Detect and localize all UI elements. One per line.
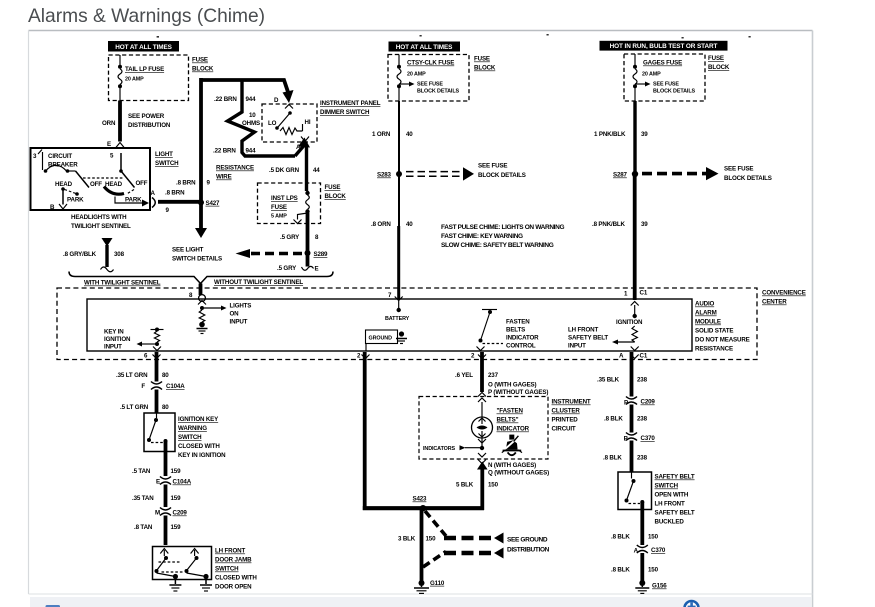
dashed arrow see fuse block details (S287) bbox=[642, 166, 772, 183]
svg-text:FUSE: FUSE bbox=[192, 57, 208, 64]
svg-text:DIMMER SWITCH: DIMMER SWITCH bbox=[320, 109, 370, 116]
svg-text:DOOR JAMB: DOOR JAMB bbox=[215, 557, 252, 564]
splice S289 bbox=[305, 250, 329, 258]
svg-text:E: E bbox=[107, 141, 111, 148]
svg-text:238: 238 bbox=[637, 377, 648, 384]
connector P C209 bbox=[624, 397, 655, 407]
svg-text:.8 BRN: .8 BRN bbox=[165, 190, 185, 197]
fuse block label (middle) bbox=[474, 56, 496, 72]
header HOT AT ALL TIMES (middle) bbox=[389, 42, 461, 52]
svg-text:S423: S423 bbox=[413, 496, 428, 503]
wire .35 LT GRN 80 bbox=[116, 352, 169, 382]
svg-text:C209: C209 bbox=[173, 510, 188, 517]
terminal A hook bbox=[151, 190, 156, 208]
svg-text:OFF: OFF bbox=[90, 181, 102, 188]
wire ground from module terminal 2 bbox=[363, 352, 367, 510]
svg-text:80: 80 bbox=[162, 372, 169, 379]
svg-text:BLOCK DETAILS: BLOCK DETAILS bbox=[417, 89, 460, 95]
svg-text:20 AMP: 20 AMP bbox=[642, 72, 661, 78]
svg-text:IGNITION KEY: IGNITION KEY bbox=[178, 416, 219, 423]
fuse GAGES FUSE 20 AMP bbox=[633, 54, 682, 101]
dashed arrow see ground distribution (lower) bbox=[423, 548, 504, 568]
instrument panel dimmer switch box bbox=[262, 97, 381, 142]
svg-text:.5 TAN: .5 TAN bbox=[132, 468, 151, 475]
wire .8 ORN 40 bbox=[371, 174, 413, 299]
svg-text:HOT AT ALL TIMES: HOT AT ALL TIMES bbox=[396, 44, 453, 51]
terminal N/Q out of cluster bbox=[478, 453, 549, 477]
svg-text:.22 BRN: .22 BRN bbox=[213, 148, 236, 155]
wire S427 down arrow bbox=[195, 203, 207, 239]
terminal 6 bbox=[144, 352, 161, 359]
inst lps fuse internals bbox=[294, 183, 310, 224]
switch blade left (twilight) bbox=[50, 171, 102, 211]
svg-text:M: M bbox=[155, 510, 160, 517]
svg-text:HOT IN RUN, BULB TEST OR START: HOT IN RUN, BULB TEST OR START bbox=[610, 43, 718, 50]
svg-text:IGNITION: IGNITION bbox=[616, 319, 643, 326]
svg-text:CLUSTER: CLUSTER bbox=[552, 408, 581, 415]
brace with/without twilight sentinel bbox=[69, 272, 333, 287]
ground (door jamb right) bbox=[200, 580, 212, 592]
terminal 1 C1 bbox=[624, 290, 648, 298]
svg-text:LO: LO bbox=[268, 120, 277, 127]
svg-text:LIGHT: LIGHT bbox=[155, 151, 173, 158]
svg-text:BLOCK DETAILS: BLOCK DETAILS bbox=[478, 172, 526, 179]
dimmer switch internals bbox=[268, 105, 311, 152]
battery input bbox=[385, 292, 410, 322]
indicators feed bbox=[423, 445, 480, 452]
see fuse block details (inside gages box) bbox=[635, 82, 696, 95]
svg-text:E: E bbox=[315, 266, 319, 273]
svg-text:BLOCK: BLOCK bbox=[325, 193, 347, 200]
svg-text:HEAD: HEAD bbox=[55, 181, 73, 188]
svg-text:.8 ORN: .8 ORN bbox=[371, 221, 391, 228]
svg-text:GAGES FUSE: GAGES FUSE bbox=[643, 60, 682, 67]
lh front safety belt input bbox=[568, 327, 635, 350]
svg-text:D: D bbox=[274, 97, 279, 104]
connector M C209 bbox=[155, 508, 187, 517]
svg-text:944: 944 bbox=[246, 148, 257, 155]
svg-text:N (WITH GAGES): N (WITH GAGES) bbox=[488, 462, 536, 469]
svg-text:.8 BRN: .8 BRN bbox=[176, 180, 196, 187]
svg-text:.8 BLK: .8 BLK bbox=[611, 567, 630, 574]
wire ORN see power distribution bbox=[102, 101, 171, 142]
svg-text:G110: G110 bbox=[430, 580, 445, 587]
footer zoom icon bbox=[685, 601, 699, 607]
svg-text:OPEN WITH: OPEN WITH bbox=[655, 492, 689, 499]
svg-text:SEE FUSE: SEE FUSE bbox=[417, 82, 443, 88]
svg-text:.5 DK GRN: .5 DK GRN bbox=[269, 167, 300, 174]
wire .5 GRY 8 to S289 bbox=[280, 213, 319, 253]
svg-text:BELTS: BELTS bbox=[506, 327, 525, 334]
svg-text:.8 BLK: .8 BLK bbox=[603, 455, 622, 462]
svg-text:39: 39 bbox=[641, 221, 648, 228]
svg-text:TWILIGHT SENTINEL: TWILIGHT SENTINEL bbox=[71, 223, 131, 230]
svg-text:INDICATOR: INDICATOR bbox=[497, 426, 530, 433]
wire .8 PNK/BLK 39 bbox=[592, 174, 648, 300]
svg-text:150: 150 bbox=[648, 567, 659, 574]
wire .35 BLK 238 bbox=[597, 352, 648, 397]
connector A C370 bbox=[634, 545, 666, 555]
svg-text:ALARM: ALARM bbox=[695, 310, 717, 317]
terminal 2 (ground) bbox=[357, 352, 370, 359]
svg-text:C104A: C104A bbox=[173, 479, 192, 486]
svg-text:SEE LIGHT: SEE LIGHT bbox=[172, 247, 204, 254]
svg-text:.5 GRY: .5 GRY bbox=[277, 265, 297, 272]
headlights caption bbox=[71, 214, 131, 230]
chime legend bbox=[441, 224, 564, 249]
ignition key warning switch internals bbox=[147, 413, 168, 443]
fuse CTSY-CLK FUSE 20 AMP bbox=[397, 55, 454, 102]
svg-text:CIRCUIT: CIRCUIT bbox=[552, 426, 576, 433]
svg-text:44: 44 bbox=[313, 167, 320, 174]
wire S423 to G110 bbox=[398, 508, 436, 582]
door jamb switch label bbox=[215, 548, 257, 591]
svg-text:238: 238 bbox=[637, 416, 648, 423]
svg-text:CTSY-CLK FUSE: CTSY-CLK FUSE bbox=[407, 60, 454, 67]
svg-text:BLOCK DETAILS: BLOCK DETAILS bbox=[653, 89, 696, 95]
svg-text:KEY IN IGNITION: KEY IN IGNITION bbox=[178, 452, 226, 459]
svg-text:DO NOT MEASURE: DO NOT MEASURE bbox=[695, 337, 750, 344]
svg-text:C104A: C104A bbox=[166, 383, 185, 390]
see ground distribution label bbox=[507, 537, 550, 554]
svg-text:AUDIO: AUDIO bbox=[695, 301, 715, 308]
svg-text:SLOW CHIME: SAFETY BELT WARNIN: SLOW CHIME: SAFETY BELT WARNING bbox=[441, 242, 554, 249]
svg-text:F: F bbox=[141, 383, 145, 390]
header HOT IN RUN, BULB TEST OR START bbox=[600, 41, 728, 51]
fuse block box (tail lp fuse) bbox=[109, 55, 189, 101]
svg-text:159: 159 bbox=[171, 468, 182, 475]
svg-text:FUSE: FUSE bbox=[474, 56, 490, 63]
svg-text:PARK: PARK bbox=[67, 197, 84, 204]
svg-text:CONTROL: CONTROL bbox=[506, 343, 536, 350]
svg-text:.8 TAN: .8 TAN bbox=[134, 524, 153, 531]
svg-text:944: 944 bbox=[246, 96, 257, 103]
svg-text:B: B bbox=[50, 204, 55, 211]
svg-text:E: E bbox=[156, 479, 160, 486]
see fuse block details (inside ctsy box) bbox=[399, 82, 460, 95]
svg-text:150: 150 bbox=[488, 482, 499, 489]
scan specks bbox=[157, 36, 159, 38]
svg-text:.8 GRY/BLK: .8 GRY/BLK bbox=[63, 251, 97, 258]
svg-text:WITHOUT TWILIGHT SENTINEL: WITHOUT TWILIGHT SENTINEL bbox=[214, 279, 303, 286]
svg-text:"FASTEN: "FASTEN bbox=[497, 408, 524, 415]
panel border bbox=[29, 30, 813, 32]
ground (door jamb left) bbox=[169, 580, 181, 592]
light switch label bbox=[155, 151, 179, 167]
splice S283 bbox=[377, 171, 402, 179]
svg-text:FAST PULSE CHIME: LIGHTS ON W: FAST PULSE CHIME: LIGHTS ON WARNING bbox=[441, 224, 564, 231]
lh front door jamb switch box bbox=[153, 547, 212, 580]
svg-text:BLOCK: BLOCK bbox=[474, 65, 496, 72]
wire .8 BLK 150 (lower) bbox=[611, 553, 659, 581]
svg-text:.35 TAN: .35 TAN bbox=[132, 495, 154, 502]
svg-text:INDICATOR: INDICATOR bbox=[506, 335, 539, 342]
wire A to S427 bbox=[158, 190, 201, 215]
svg-text:SAFETY BELT: SAFETY BELT bbox=[655, 474, 695, 481]
svg-text:FUSE: FUSE bbox=[708, 55, 724, 62]
svg-text:INPUT: INPUT bbox=[230, 319, 248, 326]
svg-text:ORN: ORN bbox=[102, 120, 116, 127]
wire into convenience center terminal 8 bbox=[189, 284, 206, 305]
door jamb switch internals bbox=[155, 549, 209, 580]
svg-text:KEY IN: KEY IN bbox=[104, 329, 124, 336]
svg-text:INSTRUMENT PANEL: INSTRUMENT PANEL bbox=[320, 100, 381, 107]
header HOT AT ALL TIMES (left) bbox=[108, 41, 179, 52]
wire .5 TAN 159 bbox=[132, 441, 181, 476]
svg-text:TAIL LP FUSE: TAIL LP FUSE bbox=[125, 66, 164, 73]
svg-text:150: 150 bbox=[426, 536, 437, 543]
svg-text:FAST CHIME: KEY WARNING: FAST CHIME: KEY WARNING bbox=[441, 233, 523, 240]
svg-text:SAFETY BELT: SAFETY BELT bbox=[568, 335, 608, 342]
ground label box bbox=[366, 330, 408, 351]
svg-text:C209: C209 bbox=[641, 399, 656, 406]
circuit breaker bbox=[33, 150, 78, 173]
svg-text:GROUND: GROUND bbox=[369, 336, 393, 342]
svg-text:5 AMP: 5 AMP bbox=[271, 214, 287, 220]
svg-text:S427: S427 bbox=[206, 200, 221, 207]
svg-text:SWITCH: SWITCH bbox=[655, 483, 679, 490]
fuse block box (ctsy-clk fuse) bbox=[388, 55, 469, 102]
mechanical link dashed bbox=[83, 177, 124, 179]
svg-text:INST LPS: INST LPS bbox=[271, 195, 298, 202]
svg-text:A: A bbox=[296, 144, 301, 151]
safety belt switch box bbox=[618, 472, 652, 510]
terminal E light switch bbox=[107, 141, 125, 160]
svg-text:SEE FUSE: SEE FUSE bbox=[478, 163, 507, 170]
svg-text:BUCKLED: BUCKLED bbox=[655, 519, 685, 526]
resistance wire .22 BRN 944 bbox=[213, 80, 310, 181]
svg-text:LH FRONT: LH FRONT bbox=[655, 501, 685, 508]
footer blue button bbox=[46, 605, 61, 607]
svg-text:.5 GRY: .5 GRY bbox=[280, 234, 300, 241]
audio alarm module inner box bbox=[87, 299, 692, 351]
svg-text:5 BLK: 5 BLK bbox=[456, 482, 474, 489]
svg-text:HEAD: HEAD bbox=[105, 181, 123, 188]
fasten belts indicator control switch bbox=[477, 310, 540, 351]
wire S427 up to dimmer feed bbox=[176, 78, 211, 203]
svg-text:A: A bbox=[151, 190, 156, 197]
svg-text:PRINTED: PRINTED bbox=[552, 417, 579, 424]
svg-text:S283: S283 bbox=[377, 172, 392, 179]
audio alarm module label bbox=[695, 301, 750, 353]
wire 1 ORN 40 bbox=[372, 101, 413, 174]
svg-text:10: 10 bbox=[249, 112, 256, 119]
footer strip bbox=[30, 597, 811, 607]
ignition key warning switch box bbox=[144, 413, 175, 452]
svg-text:BREAKER: BREAKER bbox=[48, 162, 78, 169]
convenience center outer dashed box bbox=[57, 288, 806, 360]
svg-text:CLOSED WITH: CLOSED WITH bbox=[215, 575, 257, 582]
svg-text:SWITCH: SWITCH bbox=[215, 566, 239, 573]
svg-text:IGNITION: IGNITION bbox=[104, 336, 131, 343]
fuse block label (inst lps) bbox=[325, 184, 347, 200]
wire 1 PNK/BLK 39 bbox=[594, 101, 648, 174]
terminal A C1 bbox=[619, 352, 648, 359]
safety belt switch internals bbox=[625, 472, 645, 504]
svg-text:308: 308 bbox=[114, 251, 125, 258]
svg-text:A: A bbox=[619, 352, 624, 359]
svg-text:HOT AT ALL TIMES: HOT AT ALL TIMES bbox=[115, 44, 172, 51]
svg-text:WIRE: WIRE bbox=[216, 174, 232, 181]
svg-text:.8 BLK: .8 BLK bbox=[604, 416, 623, 423]
svg-text:3 BLK: 3 BLK bbox=[398, 536, 416, 543]
svg-text:CONVENIENCE: CONVENIENCE bbox=[762, 290, 806, 297]
svg-text:.22 BRN: .22 BRN bbox=[214, 96, 237, 103]
svg-text:SEE GROUND: SEE GROUND bbox=[507, 537, 548, 544]
svg-text:.6 YEL: .6 YEL bbox=[455, 372, 473, 379]
svg-text:.8 BLK: .8 BLK bbox=[611, 534, 630, 541]
ignition input bbox=[616, 302, 643, 351]
svg-text:SEE FUSE: SEE FUSE bbox=[724, 166, 753, 173]
svg-text:RESISTANCE: RESISTANCE bbox=[216, 165, 254, 172]
svg-text:SWITCH: SWITCH bbox=[178, 434, 202, 441]
ground G156 bbox=[635, 580, 667, 593]
wire dimmer A to inst lps fuse bbox=[269, 145, 320, 183]
connector B C370 bbox=[624, 433, 656, 443]
svg-text:80: 80 bbox=[162, 404, 169, 411]
svg-text:INPUT: INPUT bbox=[568, 343, 586, 350]
connector F C104A bbox=[141, 382, 185, 391]
svg-text:WARNING: WARNING bbox=[178, 425, 207, 432]
svg-text:DISTRIBUTION: DISTRIBUTION bbox=[507, 547, 550, 554]
svg-text:HEADLIGHTS WITH: HEADLIGHTS WITH bbox=[71, 214, 127, 221]
svg-text:Alarms & Warnings (Chime): Alarms & Warnings (Chime) bbox=[28, 6, 265, 27]
wire .8 GRY/BLK 308 stub bbox=[63, 238, 125, 272]
wire .8 BLK 238 (upper) bbox=[604, 405, 648, 433]
svg-text:.8 PNK/BLK: .8 PNK/BLK bbox=[592, 221, 626, 228]
key in ignition input bbox=[104, 328, 164, 351]
svg-text:159: 159 bbox=[171, 524, 182, 531]
fuse block box (gages fuse) bbox=[624, 54, 705, 101]
svg-text:P (WITHOUT GAGES): P (WITHOUT GAGES) bbox=[488, 389, 548, 396]
svg-text:G156: G156 bbox=[652, 583, 667, 590]
svg-text:150: 150 bbox=[648, 534, 659, 541]
double dashed arrow see fuse block details (S283) bbox=[406, 163, 526, 181]
svg-text:C370: C370 bbox=[641, 435, 656, 442]
svg-text:20 AMP: 20 AMP bbox=[407, 72, 426, 78]
svg-text:CIRCUIT: CIRCUIT bbox=[48, 153, 72, 160]
svg-text:C1: C1 bbox=[640, 353, 648, 360]
splice S423 bbox=[413, 496, 428, 512]
svg-text:C1: C1 bbox=[640, 290, 648, 297]
svg-text:39: 39 bbox=[641, 131, 648, 138]
light switch box (headlights with twilight sentinel) bbox=[31, 148, 151, 210]
connector E C104A bbox=[156, 477, 192, 486]
svg-text:OHMS: OHMS bbox=[242, 120, 260, 127]
svg-text:OFF: OFF bbox=[136, 180, 148, 187]
splice S427 bbox=[198, 200, 220, 207]
svg-text:BLOCK DETAILS: BLOCK DETAILS bbox=[724, 175, 772, 182]
svg-text:ON: ON bbox=[230, 311, 240, 318]
svg-text:SWITCH DETAILS: SWITCH DETAILS bbox=[172, 256, 222, 263]
wire .8 TAN 159 bbox=[134, 516, 181, 546]
svg-text:INPUT: INPUT bbox=[104, 344, 122, 351]
svg-text:1 ORN: 1 ORN bbox=[372, 131, 391, 138]
svg-text:1 PNK/BLK: 1 PNK/BLK bbox=[594, 131, 626, 138]
dashed arrow S289 to see light switch details bbox=[236, 249, 307, 258]
svg-text:SEE FUSE: SEE FUSE bbox=[653, 82, 679, 88]
svg-text:SOLID STATE: SOLID STATE bbox=[695, 328, 733, 335]
wire .5 LT GRN 80 bbox=[120, 390, 169, 414]
svg-text:.35 BLK: .35 BLK bbox=[597, 377, 620, 384]
lights on input sensor bbox=[197, 303, 252, 334]
seat belt icon bbox=[502, 435, 522, 456]
svg-text:BLOCK: BLOCK bbox=[192, 66, 214, 73]
svg-text:20 AMP: 20 AMP bbox=[125, 77, 144, 83]
wire .35 TAN 159 bbox=[132, 485, 181, 508]
dashed arrow see ground distribution (upper) bbox=[425, 511, 504, 544]
wire .5 GRY E below S289 bbox=[277, 253, 319, 273]
svg-text:CLOSED WITH: CLOSED WITH bbox=[178, 443, 220, 450]
ground G110 bbox=[414, 580, 445, 594]
svg-text:INSTRUMENT: INSTRUMENT bbox=[552, 399, 591, 406]
svg-text:FASTEN: FASTEN bbox=[506, 319, 530, 326]
svg-text:FUSE: FUSE bbox=[271, 204, 287, 211]
svg-text:.5 LT GRN: .5 LT GRN bbox=[120, 404, 149, 411]
wire .6 YEL 237 bbox=[455, 352, 548, 396]
svg-text:BELTS": BELTS" bbox=[497, 417, 519, 424]
svg-text:BLOCK: BLOCK bbox=[708, 64, 730, 71]
svg-text:O (WITH GAGES): O (WITH GAGES) bbox=[488, 382, 537, 389]
svg-text:S287: S287 bbox=[613, 172, 628, 179]
svg-text:40: 40 bbox=[406, 221, 413, 228]
terminal into instrument cluster bbox=[478, 393, 486, 403]
wire 5 BLK 150 bbox=[456, 462, 499, 511]
ground bus horizontal bbox=[363, 506, 484, 510]
wire .8 BLK 238 (lower) bbox=[603, 441, 648, 473]
svg-text:RESISTANCE: RESISTANCE bbox=[695, 346, 733, 353]
terminal 2 (indicator control) bbox=[471, 352, 486, 359]
svg-text:159: 159 bbox=[171, 495, 182, 502]
svg-text:LH FRONT: LH FRONT bbox=[568, 327, 598, 334]
svg-text:LIGHTS: LIGHTS bbox=[230, 303, 252, 310]
fuse block label (left) bbox=[192, 57, 214, 73]
wire feed to dimmer D bbox=[201, 80, 294, 103]
svg-text:S289: S289 bbox=[314, 251, 329, 258]
svg-text:CENTER: CENTER bbox=[762, 299, 787, 306]
svg-text:HI: HI bbox=[305, 119, 311, 126]
svg-text:DOOR OPEN: DOOR OPEN bbox=[215, 584, 252, 591]
svg-text:SEE POWER: SEE POWER bbox=[128, 113, 165, 120]
switch blade right (without twilight) bbox=[104, 153, 149, 207]
svg-text:BATTERY: BATTERY bbox=[385, 316, 410, 322]
fuse block label (right) bbox=[708, 55, 730, 71]
svg-text:DISTRIBUTION: DISTRIBUTION bbox=[128, 122, 171, 129]
inst lps fuse box bbox=[258, 183, 321, 224]
svg-text:40: 40 bbox=[406, 131, 413, 138]
svg-text:238: 238 bbox=[637, 455, 648, 462]
wire .8 BLK 150 (upper) bbox=[611, 502, 659, 545]
svg-text:SWITCH: SWITCH bbox=[155, 160, 179, 167]
splice S287 bbox=[613, 171, 638, 179]
fasten belts indicator lamp bbox=[472, 402, 530, 450]
svg-text:FUSE: FUSE bbox=[325, 184, 341, 191]
svg-text:LH FRONT: LH FRONT bbox=[215, 548, 245, 555]
see light switch details bbox=[172, 247, 222, 263]
safety belt switch label bbox=[655, 474, 695, 526]
svg-text:.35 LT GRN: .35 LT GRN bbox=[116, 372, 148, 379]
svg-text:C370: C370 bbox=[651, 547, 666, 554]
svg-text:SAFETY BELT: SAFETY BELT bbox=[655, 510, 695, 517]
svg-text:MODULE: MODULE bbox=[695, 319, 721, 326]
fuse TAIL LP FUSE 20 AMP bbox=[118, 55, 164, 101]
svg-text:A: A bbox=[634, 548, 639, 555]
svg-text:INDICATORS: INDICATORS bbox=[423, 446, 456, 452]
svg-text:237: 237 bbox=[488, 372, 499, 379]
svg-text:Q (WITHOUT GAGES): Q (WITHOUT GAGES) bbox=[488, 470, 549, 477]
instrument cluster printed circuit box bbox=[419, 397, 591, 460]
svg-text:WITH TWILIGHT SENTINEL: WITH TWILIGHT SENTINEL bbox=[84, 280, 161, 287]
